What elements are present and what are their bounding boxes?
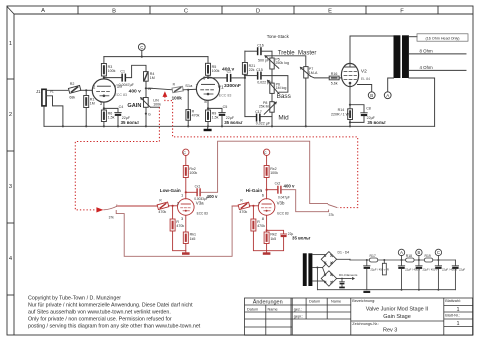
box 16 ohm note (417, 34, 468, 41)
svg-text:ECC 83: ECC 83 (197, 211, 208, 215)
svg-text:1: 1 (9, 41, 12, 47)
wire pot out to switch (146, 87, 152, 89)
resistor R2 (68, 85, 80, 93)
svg-text:400 v: 400 v (207, 194, 219, 199)
op V3b triode (258, 199, 275, 216)
switch S1a (grey box) (172, 86, 183, 92)
svg-text:470k: 470k (176, 224, 184, 228)
svg-text:100k: 100k (153, 102, 161, 106)
arrow S1a inject (163, 91, 168, 97)
pot Master (304, 67, 308, 78)
svg-text:V3b: V3b (277, 200, 285, 205)
wire 4 ohm tap (409, 69, 466, 71)
cathode network V2 (349, 83, 351, 109)
junction dots on ground rail (input section) (117, 125, 119, 127)
svg-text:GAIN: GAIN (127, 103, 141, 109)
node B circle (368, 92, 375, 99)
resistor filter 3 (424, 258, 433, 262)
svg-text:5,6k: 5,6k (331, 82, 338, 86)
svg-text:Zeichnungs-Nr.:: Zeichnungs-Nr.: (352, 322, 379, 326)
capacitor C4 (104, 108, 118, 112)
svg-text:Valve Junior Mod Stage II: Valve Junior Mod Stage II (366, 307, 429, 313)
svg-text:100k: 100k (212, 69, 220, 73)
svg-text:35 вольт: 35 вольт (224, 120, 243, 125)
wire R4 down to pot and ground (145, 81, 147, 126)
capacitor C1 (104, 77, 122, 79)
svg-text:37k: 37k (329, 213, 335, 217)
svg-text:B: B (112, 8, 116, 14)
svg-text:C16: C16 (257, 43, 264, 47)
node G (145, 113, 147, 115)
wire master wiper to R16 (311, 76, 330, 78)
wire bridge1 output to filter rail (337, 258, 350, 260)
svg-text:Gain Stage: Gain Stage (383, 314, 411, 320)
svg-text:C4: C4 (119, 105, 124, 109)
labels main section (36, 65, 376, 120)
resistor filter 1 (369, 258, 378, 262)
svg-text:Datum: Datum (247, 307, 258, 311)
svg-text:Master: Master (298, 50, 316, 56)
node anode V3a (185, 191, 187, 193)
capacitor filter 5 (454, 260, 456, 266)
node C supply preamp (141, 56, 143, 58)
node R1 tap (85, 89, 87, 91)
svg-text:C: C (183, 150, 186, 155)
svg-text:68k: 68k (69, 96, 75, 100)
rectifier bridge DC filaments (321, 271, 336, 286)
resistor R3 (101, 64, 106, 77)
node C2 out junction (244, 77, 246, 79)
wire C15 to bass wiper (262, 76, 288, 93)
svg-text:C: C (140, 45, 143, 50)
resistor R6 (101, 110, 106, 122)
resistor R21 (242, 63, 247, 75)
capacitor C5 (208, 108, 222, 112)
wire junction vertical (244, 51, 246, 116)
svg-text:22µF / 450 v: 22µF / 450 v (423, 268, 439, 272)
resistor Rx2 higain 100k (264, 166, 269, 178)
node anode V3b (266, 189, 268, 191)
pot GAIN (144, 98, 149, 108)
cathode network V1a: wire (103, 102, 105, 110)
svg-text:220R / 1 W: 220R / 1 W (331, 112, 350, 116)
copyright text block (28, 296, 201, 330)
svg-text:Only for private / non commerc: Only for private / non commercial use. P… (28, 317, 172, 323)
svg-text:400 v: 400 v (129, 88, 142, 94)
svg-text:IN: IN (148, 87, 152, 91)
red dotted mod routing (75, 97, 357, 210)
svg-text:E: E (328, 8, 332, 14)
capacitor filter 4 / node C (437, 260, 439, 266)
SCHEMATIC-POWER (118, 149, 287, 255)
svg-text:4 Ohm: 4 Ohm (420, 65, 434, 70)
wire to grid (118, 205, 158, 207)
svg-text:C17: C17 (255, 110, 262, 114)
svg-text:Cx2: Cx2 (275, 181, 281, 185)
wire V2 anode to OT (350, 36, 394, 67)
cathode V3b (266, 215, 268, 232)
resistor R9 (206, 110, 211, 122)
svg-text:Blatt-Nr.:: Blatt-Nr.: (445, 313, 460, 317)
wire master bottom to ground (305, 78, 307, 126)
capacitor C15 (257, 72, 259, 80)
capacitor filter 3 / node B (418, 260, 420, 266)
resistor grid leak lowgain 470k (172, 206, 174, 219)
svg-text:posting / serving this diagram: posting / serving this diagram from any … (28, 324, 201, 330)
svg-text:1,5k: 1,5k (212, 116, 219, 120)
resistor 470k below switch (187, 90, 189, 110)
svg-text:8 Ohm: 8 Ohm (420, 48, 434, 53)
svg-text:C: C (184, 8, 188, 14)
pot Treble (270, 58, 274, 69)
svg-text:Blattzahl:: Blattzahl: (445, 299, 461, 303)
svg-text:35 вольт: 35 вольт (367, 120, 386, 125)
dusty red routing wires (104, 141, 337, 256)
wire V2 screen to node B (358, 85, 372, 92)
svg-text:V3a: V3a (196, 200, 204, 205)
pot Mid (270, 102, 274, 113)
svg-text:Treble: Treble (278, 50, 295, 56)
svg-text:B: B (418, 250, 421, 255)
op V1a triode circle (92, 79, 115, 102)
svg-text:A: A (41, 8, 45, 14)
svg-text:S1a: S1a (185, 83, 193, 88)
svg-text:ECC 83: ECC 83 (277, 211, 288, 215)
svg-text:Nur für private / nicht kommer: Nur für private / nicht kommerzielle Anw… (28, 303, 193, 309)
ground filter (363, 291, 370, 293)
svg-text:Rev 3: Rev 3 (383, 328, 397, 334)
wire B+ rail preamp (104, 56, 208, 58)
red labels first stage switch (172, 82, 200, 117)
svg-text:A: A (400, 250, 403, 255)
svg-text:1M: 1M (150, 76, 155, 80)
resistor R1 (85, 90, 87, 95)
node grid stopper tap (187, 89, 189, 91)
switch blade output select (328, 205, 337, 208)
wire jack sleeve (46, 96, 63, 127)
ground symbol main (207, 126, 209, 129)
wire secondary return (409, 78, 435, 126)
op V1 triode circle (196, 77, 219, 100)
wire 16 ohm tap (409, 36, 417, 38)
resistor bleeder box (383, 260, 385, 263)
svg-text:1,5k: 1,5k (108, 116, 115, 120)
svg-text:R2: R2 (70, 82, 75, 86)
wire alt contact to higain input (116, 206, 232, 256)
svg-text:Mid: Mid (278, 114, 289, 121)
svg-text:C: C (437, 250, 440, 255)
svg-text:V1a: V1a (113, 84, 122, 90)
svg-text:EL 84: EL 84 (361, 77, 370, 81)
op V2 pentode EL84 (341, 63, 358, 86)
wire HT winding top (312, 254, 326, 256)
svg-text:400 v: 400 v (284, 183, 296, 188)
svg-text:G: G (148, 112, 151, 116)
svg-text:470k: 470k (239, 210, 247, 214)
wire dotted return branch to S1a arrow (165, 97, 358, 208)
junction dots on ground rail (V1 section) (221, 125, 223, 127)
transformer PT primary bar (303, 253, 307, 286)
svg-text:35 вольт: 35 вольт (121, 120, 140, 125)
resistor grid stopper higain 470k (238, 202, 250, 209)
capacitor C17 (256, 114, 257, 122)
node A circle (384, 92, 391, 99)
wire treble chain vertical (271, 51, 273, 126)
svg-text:400 v: 400 v (222, 66, 235, 72)
wire bottom 0V rail (317, 289, 455, 291)
svg-text:100k: 100k (108, 69, 116, 73)
svg-text:R17: R17 (370, 254, 376, 258)
svg-text:C15: C15 (256, 68, 263, 72)
svg-text:F: F (400, 8, 404, 14)
wire anode stub (103, 76, 105, 79)
wire jack tip to R2 (46, 89, 68, 91)
grid letters (41, 8, 404, 14)
svg-text:Name: Name (268, 307, 278, 311)
wire 8 ohm tap (409, 53, 466, 55)
resistor grid stopper lowgain 470k (157, 202, 169, 209)
SCHEMATIC-TONE (303, 249, 459, 293)
wire heater winding (312, 280, 323, 282)
svg-text:ECC 83: ECC 83 (219, 93, 232, 97)
svg-text:22µF / 450 v: 22µF / 450 v (442, 268, 458, 272)
wire center tap to 0V rail (316, 268, 318, 290)
svg-text:Änderungen: Änderungen (253, 298, 283, 305)
svg-text:37k: 37k (109, 216, 115, 220)
wire jack body to ground (43, 106, 45, 126)
wire treble wiper to master (265, 56, 306, 67)
op V3a triode (178, 199, 195, 216)
capacitor Cx1 (186, 191, 197, 193)
resistor R14 (348, 109, 353, 120)
cathode V3a (185, 215, 187, 232)
resistor R5 (207, 57, 209, 64)
wire HT center tap (312, 267, 322, 269)
capacitor C16 (245, 50, 257, 52)
wire switch to V1 grid (183, 88, 196, 91)
cathode network V1: wire (207, 100, 209, 110)
svg-text:1M: 1M (90, 102, 95, 106)
svg-text:35 вольт: 35 вольт (292, 236, 311, 241)
capacitor Cx2 (267, 189, 278, 191)
svg-text:470k: 470k (257, 224, 265, 228)
ground rail (44, 125, 435, 127)
svg-text:Cx1: Cx1 (195, 184, 201, 188)
svg-text:R16: R16 (331, 72, 338, 76)
resistor R16 (329, 76, 339, 80)
navy labels red stages (207, 183, 312, 240)
capacitor filter 1 (366, 260, 368, 266)
switch blade input select (104, 206, 117, 209)
svg-text:0.047µF: 0.047µF (278, 195, 290, 199)
wire to grid higain (232, 205, 238, 207)
svg-text:0,022 µF: 0,022 µF (256, 121, 271, 125)
node anode V1a (103, 77, 105, 79)
svg-text:D: D (256, 8, 260, 14)
junction dots on PSU rails (383, 259, 385, 261)
svg-text:3300nF: 3300nF (224, 83, 241, 89)
wire higain out to switch (282, 190, 329, 212)
svg-text:1: 1 (456, 307, 459, 313)
svg-text:C1: C1 (120, 70, 125, 74)
resistor R4 (144, 72, 149, 82)
svg-text:V1: V1 (50, 90, 54, 94)
svg-text:22µF / 450 v: 22µF / 450 v (370, 268, 386, 272)
resistor Rk2 1k5 (264, 232, 269, 244)
wire bridge2 output (337, 278, 351, 280)
title block (245, 298, 473, 335)
svg-text:100k: 100k (172, 95, 183, 100)
rectifier D1-D4 bridge (321, 252, 336, 267)
ground lowgain (182, 252, 190, 255)
svg-text:Copyright by Tube-Town / D. Mu: Copyright by Tube-Town / D. Munzinger (28, 296, 121, 302)
svg-text:R14: R14 (338, 108, 345, 112)
svg-text:Bass: Bass (277, 93, 291, 100)
grid numbers (9, 41, 13, 262)
node C circle lowgain (183, 149, 189, 155)
svg-text:DC-Filaments: DC-Filaments (339, 273, 358, 277)
jack J1 (42, 89, 46, 106)
svg-text:Bezeichnung:: Bezeichnung: (352, 299, 375, 303)
resistor Rk1 1k5 (183, 232, 188, 244)
red stage labels (158, 150, 293, 241)
svg-text:25k lin: 25k lin (259, 105, 269, 109)
svg-text:D1 - D4: D1 - D4 (338, 250, 350, 254)
svg-text:2: 2 (9, 112, 12, 118)
svg-text:100k: 100k (270, 171, 278, 175)
wire R2 to grid (81, 89, 93, 91)
wire dotted from GAIN wiper to lowgain input (75, 107, 159, 210)
svg-text:Tone-Stack: Tone-Stack (267, 34, 290, 39)
capacitor heater filter (341, 279, 343, 282)
svg-text:22µF: 22µF (459, 268, 466, 272)
resistor grid leak higain 470k (252, 206, 254, 219)
svg-text:A: A (386, 93, 389, 98)
transformer PT secondary bar (308, 253, 312, 286)
capacitor C8 (350, 105, 364, 113)
svg-text:470k: 470k (158, 210, 166, 214)
svg-text:1: 1 (456, 321, 459, 327)
svg-text:auf Sites ausserhalb von www.t: auf Sites ausserhalb von www.tube-town.n… (28, 310, 171, 316)
node IN (145, 87, 147, 89)
svg-text:C: C (264, 150, 267, 155)
wire lowgain out over to switch (201, 141, 328, 203)
wire filter top rail (350, 259, 455, 261)
svg-text:100k: 100k (189, 171, 197, 175)
svg-text:500 pF: 500 pF (258, 59, 270, 63)
pot Bass (270, 83, 274, 93)
svg-text:(16 Ohm Head Only): (16 Ohm Head Only) (425, 37, 459, 41)
transformer OT primary bar (394, 35, 401, 78)
svg-text:R19: R19 (425, 254, 431, 258)
svg-text:250k log: 250k log (275, 61, 289, 65)
tone stack labels (249, 43, 318, 125)
ground heater (339, 287, 345, 289)
svg-text:1k5: 1k5 (270, 237, 276, 241)
capacitor cathode bypass higain (267, 230, 284, 234)
svg-text:C8: C8 (366, 107, 371, 111)
resistor Rx2 lowgain 100k (183, 166, 188, 178)
svg-text:gepr.:: gepr.: (294, 315, 304, 319)
svg-text:22k: 22k (249, 68, 255, 72)
power labels (338, 250, 466, 277)
svg-text:ECC 83: ECC 83 (114, 93, 127, 97)
svg-text:0,022 µF: 0,022 µF (257, 80, 272, 84)
arrow lowgain input (96, 207, 103, 212)
svg-text:Low-Gain: Low-Gain (160, 188, 181, 193)
svg-text:Name: Name (331, 300, 341, 304)
svg-text:3: 3 (9, 184, 12, 190)
svg-text:1M log: 1M log (276, 86, 287, 90)
node anode V1 (207, 77, 209, 79)
svg-text:V2: V2 (361, 69, 367, 75)
SCHEMATIC-MAIN (242, 47, 329, 127)
svg-text:J1: J1 (36, 89, 41, 94)
node C circle higain (263, 149, 269, 155)
svg-text:1k5: 1k5 (190, 237, 196, 241)
transformer OT secondary bar (402, 35, 409, 78)
svg-text:R: R (387, 268, 389, 272)
voltage labels navy (121, 66, 387, 125)
svg-text:B: B (370, 93, 373, 98)
svg-text:470k: 470k (192, 114, 200, 118)
ground higain (263, 252, 271, 255)
svg-text:R18: R18 (406, 254, 412, 258)
wire OT primary bottom to node A (388, 78, 394, 92)
capacitor filter 2 / node A (401, 260, 403, 266)
capacitor C2 (208, 77, 226, 79)
svg-text:Hi-Gain: Hi-Gain (246, 188, 263, 193)
resistor filter 2 (406, 258, 415, 262)
svg-text:Datum: Datum (309, 300, 320, 304)
tiny switch labels (109, 213, 335, 219)
svg-text:1M-A: 1M-A (309, 71, 318, 75)
svg-text:C5: C5 (223, 105, 228, 109)
svg-text:gez.:: gez.: (294, 308, 302, 312)
svg-text:22µF / 450 v: 22µF / 450 v (405, 268, 421, 272)
